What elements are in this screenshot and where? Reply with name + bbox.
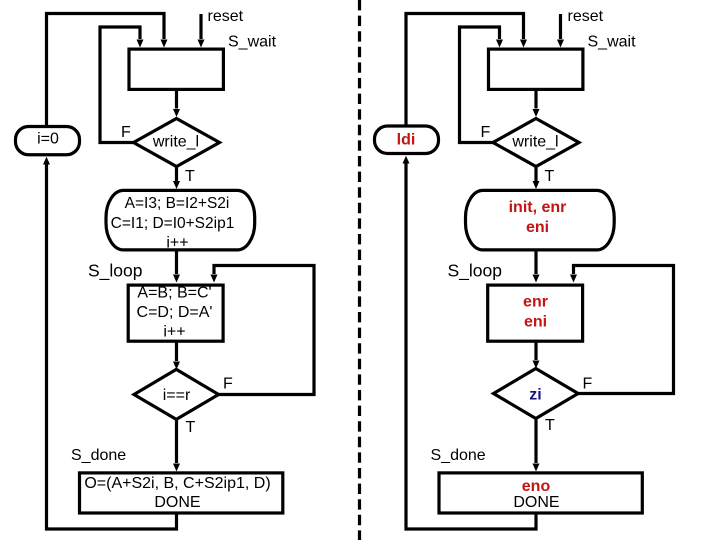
svg-text:i==r: i==r [163,387,191,404]
svg-text:A=B; B=C': A=B; B=C' [137,285,211,302]
svg-text:write_l: write_l [511,134,558,151]
svg-text:init, enr: init, enr [509,199,567,216]
svg-text:F: F [583,376,593,393]
svg-text:S_wait: S_wait [588,34,637,51]
svg-text:zi: zi [529,387,541,404]
svg-text:enr: enr [523,294,548,311]
svg-text:i++: i++ [166,235,188,252]
svg-text:F: F [223,376,233,393]
svg-text:i=0: i=0 [37,131,59,148]
svg-text:C=I1; D=I0+S2ip1: C=I1; D=I0+S2ip1 [111,215,235,232]
svg-text:eni: eni [524,314,547,331]
svg-text:eni: eni [526,219,549,236]
svg-text:T: T [545,417,555,434]
svg-text:O=(A+S2i, B, C+S2ip1, D): O=(A+S2i, B, C+S2ip1, D) [84,475,270,492]
svg-text:F: F [481,124,491,141]
svg-text:DONE: DONE [154,494,200,511]
svg-text:F: F [121,124,131,141]
svg-text:i++: i++ [163,324,185,341]
svg-text:T: T [185,168,195,185]
svg-text:C=D; D=A': C=D; D=A' [137,304,213,321]
svg-text:DONE: DONE [513,494,559,511]
svg-text:write_l: write_l [152,134,199,151]
svg-text:reset: reset [568,8,604,25]
svg-text:eno: eno [522,478,551,495]
svg-text:A=I3; B=I2+S2i: A=I3; B=I2+S2i [125,195,230,212]
svg-text:T: T [545,168,555,185]
svg-text:reset: reset [208,8,244,25]
svg-text:ldi: ldi [397,132,416,149]
svg-text:S_loop: S_loop [448,260,503,281]
svg-text:S_done: S_done [431,447,486,464]
svg-text:S_done: S_done [71,447,126,464]
svg-text:S_loop: S_loop [88,260,143,281]
svg-text:S_wait: S_wait [228,34,277,51]
svg-text:T: T [186,419,196,436]
